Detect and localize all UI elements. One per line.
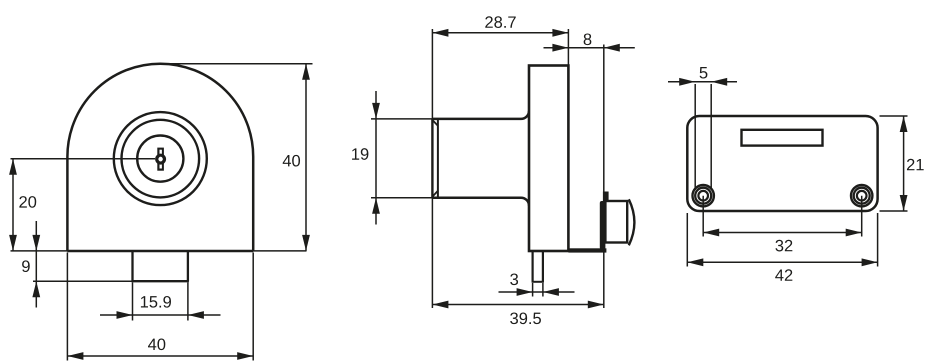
dimension 40 right (lock height) [283, 64, 310, 251]
side view: cylinder barrel [432, 111, 529, 206]
back view: right screw hole bore [854, 188, 870, 204]
side view: bottom stem [532, 251, 544, 282]
dimension 3 (stem width) [499, 273, 575, 296]
side view: cam curved face [629, 199, 635, 245]
back view: plate outline [687, 116, 877, 211]
back view: right screw hole countersink [851, 185, 872, 206]
front view: top extension line [166, 63, 313, 65]
dimension 32 (hole spacing) [703, 196, 862, 252]
side view: cam bar [600, 201, 606, 250]
dimension 28.7 (cylinder length) [432, 16, 568, 36]
side view: lock body [529, 66, 568, 252]
back view: right screw hole inner [857, 191, 867, 201]
front view: tab bottom extension line [33, 280, 133, 282]
front view: keyhole [157, 149, 165, 170]
dimension 9 (tab height) [22, 221, 40, 308]
dimension 8 (cam clearance) [544, 33, 635, 51]
dimension 20 (centre to bottom) [9, 159, 36, 251]
back view: slot [742, 130, 823, 146]
side view: cam back extension line [603, 45, 605, 309]
side view: cylinder chamfer edges [433, 120, 438, 196]
side view: cylinder front face [431, 120, 433, 198]
side view: cylinder face ring [437, 120, 439, 197]
front view: lock body dome outline [67, 64, 253, 251]
dimension 5 (hole diameter) [668, 67, 737, 190]
dimension 19 (cylinder diameter) [352, 91, 433, 225]
front view: cylinder ring outer [114, 112, 207, 205]
back view: left screw hole countersink [693, 185, 714, 206]
dimension 15.9 (tab width) [100, 283, 221, 321]
front view: cylinder ring middle [122, 120, 200, 198]
side view: cam stub [603, 192, 609, 202]
front view: bottom edge extension line [11, 250, 307, 252]
front view: cylinder plug circle [137, 136, 183, 182]
dimension 40 bottom (lock width) [67, 253, 253, 361]
front view: bottom tab [132, 251, 189, 281]
dimension 39.5 (overall depth) [432, 301, 603, 325]
front view: keyhole center leader line [11, 158, 156, 160]
dimension 21 (plate height) [880, 116, 924, 211]
dimension 42 (plate width) [687, 213, 877, 281]
back view: left screw hole bore [695, 188, 711, 204]
back view: left screw hole inner [698, 191, 708, 201]
side view: cam disc [605, 201, 627, 243]
side view: body bottom band [568, 248, 606, 252]
side view: body back extension line [567, 29, 569, 66]
side view: cylinder face extension line [431, 29, 433, 308]
